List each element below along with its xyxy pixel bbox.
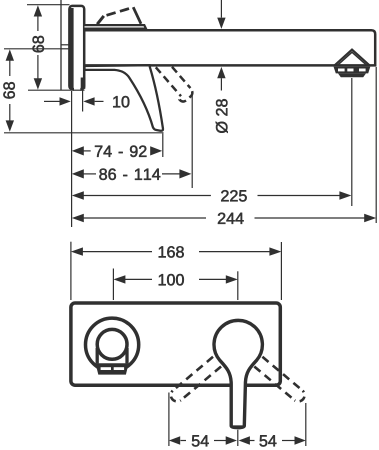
spout outlet cup sides (96, 348, 99, 363)
dimension 74 - 92 (83, 150, 91, 152)
dimension 244 (83, 217, 206, 219)
spout outlet inner circle (97, 329, 127, 359)
top lever raised tip edge (133, 7, 141, 24)
dimension 54 right (250, 440, 255, 442)
lower lever (closed, solid) (85, 65, 163, 131)
wire: in-wall supply lines (61, 44, 70, 46)
dimension 86 - 114 (83, 173, 96, 175)
dashed lever left (front) (171, 357, 221, 402)
text diameter 28 (rotated) (216, 121, 228, 132)
text 86 - 114 (99, 169, 107, 180)
extension line plate top (27, 4, 70, 6)
dimension 10 handle shaft (44, 100, 60, 102)
extension line 100 left (112, 269, 114, 301)
dimension 68 axis to handle tip (9, 60, 11, 121)
dimension 54 left (181, 440, 187, 442)
extension line dashed lever tip vertical (191, 92, 193, 188)
dimension 168 (83, 251, 153, 253)
spout body (84, 30, 375, 65)
text 74 - 92 (95, 146, 102, 157)
extension line handle tip level (4, 132, 164, 134)
dimension 225 (83, 195, 211, 197)
extension line handle shaft right (82, 90, 84, 112)
spout end aerator (side) (335, 50, 370, 66)
extension line 168 right (280, 242, 282, 300)
handle tip face line (233, 425, 244, 427)
top lever raised foot edge (97, 16, 104, 24)
extension line spout end vertical (375, 67, 377, 223)
extension line spout axis (4, 48, 61, 50)
extension line 168 left (70, 242, 72, 300)
lower lever open (dashed) (156, 67, 193, 102)
wire: wall line (60, 0, 62, 90)
extension line aerator centre vertical (351, 78, 353, 206)
text 68 axis-to-tip (rotated) (3, 91, 14, 98)
text 68 plate height (rotated) (33, 45, 44, 52)
extension line lever tip vertical (162, 134, 164, 158)
extension line 54 right (305, 403, 307, 446)
text 100 (159, 274, 166, 285)
text 54 left (192, 435, 200, 446)
top lever bar (closed position) (85, 25, 147, 29)
text 10 (113, 96, 120, 107)
text 244 (218, 213, 225, 224)
text 168 (159, 246, 166, 257)
text 225 (221, 190, 228, 201)
handle shaft channel below plate (74, 85, 80, 96)
escutcheon plate (side) (69, 6, 84, 89)
spout outlet outer circle (86, 318, 139, 371)
dashed lever right (front) (254, 357, 304, 402)
dimension 100 (125, 278, 153, 280)
handle (front, glass shape) (214, 320, 262, 427)
dimension 68 plate height (37, 16, 39, 80)
text 54 right (260, 435, 268, 446)
extension line plate front vertical (71, 91, 73, 227)
wall plate (front) (71, 303, 280, 385)
top lever raised dashed edge (107, 7, 134, 15)
extension line plate bottom (28, 89, 85, 91)
extension line 54 centre (237, 430, 239, 446)
aerator front band (96, 363, 129, 374)
extension line 54 left (168, 393, 170, 447)
extension line 100 right (237, 271, 239, 300)
dimension Ø 28 spout diameter (220, 0, 222, 18)
